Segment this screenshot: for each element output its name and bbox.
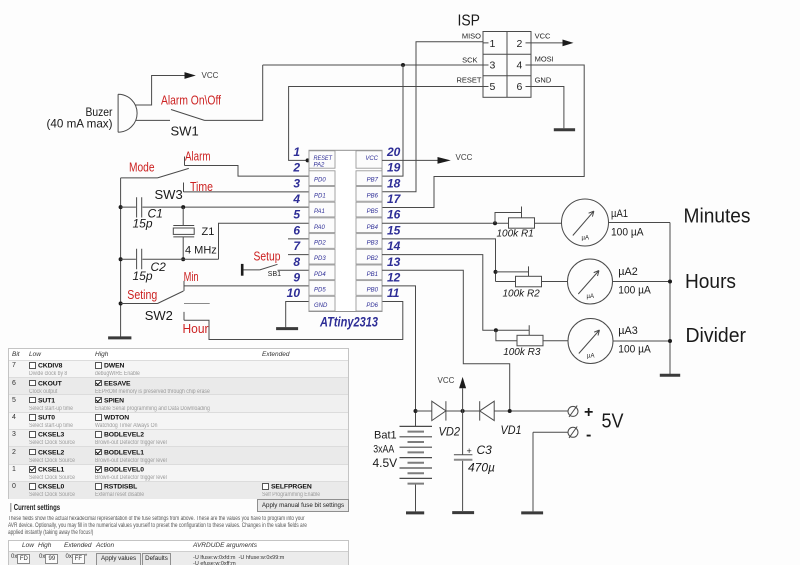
pin number 9 <box>293 270 300 284</box>
wire R3 to meter uA3 <box>543 340 568 342</box>
pin number 12 <box>387 270 401 284</box>
svg-text:2: 2 <box>292 161 300 175</box>
junction rail/C1 <box>119 205 123 209</box>
svg-text:Alarm On\Off: Alarm On\Off <box>161 94 221 108</box>
svg-text:4.5V: 4.5V <box>373 456 398 470</box>
diode VD1 <box>480 401 522 437</box>
svg-text:PA2: PA2 <box>314 163 326 169</box>
svg-text:VCC: VCC <box>202 71 219 80</box>
svg-text:PB3: PB3 <box>367 241 379 247</box>
svg-text:Z1: Z1 <box>202 226 215 238</box>
junction rail/uA3 <box>668 339 672 343</box>
svg-text:+: + <box>584 404 593 421</box>
svg-text:Mode: Mode <box>129 161 155 175</box>
fuse bits table <box>8 348 349 499</box>
svg-text:3xAA: 3xAA <box>373 444 395 456</box>
svg-text:-: - <box>586 426 591 443</box>
svg-text:4 MHz: 4 MHz <box>185 245 217 257</box>
pin number 17 <box>387 192 402 206</box>
svg-text:+: + <box>467 446 472 456</box>
capacitor C2 15p <box>121 249 219 283</box>
svg-text:RESET: RESET <box>314 156 334 162</box>
svg-text:GND: GND <box>314 303 328 309</box>
pin number 10 <box>287 286 301 300</box>
label Mode <box>129 161 155 175</box>
svg-text:18: 18 <box>387 176 401 190</box>
svg-text:100k R3: 100k R3 <box>503 347 541 358</box>
svg-text:PD0: PD0 <box>314 178 326 184</box>
battery Bat1 3xAA 4.5V <box>373 411 433 511</box>
pin number 14 <box>387 239 401 253</box>
svg-text:PD5: PD5 <box>314 288 326 294</box>
wire chip pin20 to VCC arrow <box>382 159 438 161</box>
pin number 20 <box>386 145 401 159</box>
svg-text:5: 5 <box>490 81 496 93</box>
svg-text:PA0: PA0 <box>314 225 326 231</box>
switch SW3 <box>121 168 189 202</box>
wire Hour contact to chip pin11 PD6 <box>184 302 403 340</box>
svg-text:Alarm: Alarm <box>185 149 211 163</box>
terminal + 5V <box>568 404 593 421</box>
wire SCK net horizontal to ISP pin3 <box>263 64 483 66</box>
svg-text:4: 4 <box>517 60 523 72</box>
wire chip pin14 PB2 to R3 <box>382 255 529 336</box>
wire chip pin12 PB0 to battery node <box>382 286 416 411</box>
resistor R3 100k (trimmer) <box>496 330 543 358</box>
svg-text:4: 4 <box>292 192 300 206</box>
junction R3 wiper node <box>494 328 498 332</box>
svg-text:16: 16 <box>387 208 401 222</box>
wire Time contact to chip pin3 PD1 <box>184 183 310 193</box>
current settings value table <box>8 540 349 565</box>
label ATtiny2313 <box>319 314 378 330</box>
svg-text:PB2: PB2 <box>367 256 379 262</box>
svg-text:VCC: VCC <box>535 32 551 41</box>
resistor R1 100k (trimmer) <box>495 207 535 240</box>
diode VD2 <box>432 401 461 438</box>
svg-text:Setup: Setup <box>254 250 281 264</box>
svg-text:Bat1: Bat1 <box>374 429 397 441</box>
svg-text:13: 13 <box>387 255 401 269</box>
svg-text:9: 9 <box>293 270 300 284</box>
wire ISP pin6 to ground <box>531 87 564 129</box>
svg-text:PD2: PD2 <box>314 241 326 247</box>
svg-text:PB1: PB1 <box>367 272 378 278</box>
terminal - 5V <box>533 426 591 443</box>
pin number 3 <box>293 176 300 190</box>
wire chip pin15 PB3 to R2 <box>382 239 496 282</box>
svg-text:5: 5 <box>293 208 300 222</box>
svg-text:Hour: Hour <box>183 322 209 336</box>
junction R1 wiper node <box>493 221 497 225</box>
svg-text:MOSI: MOSI <box>535 55 554 64</box>
capacitor C1 15p <box>121 197 309 230</box>
wire chip pin10 GND to ground <box>286 302 309 328</box>
wire uA1 to right rail <box>609 222 671 224</box>
ground (minus rail) <box>521 511 543 514</box>
svg-text:SCK: SCK <box>462 55 477 64</box>
svg-text:100 µA: 100 µA <box>618 344 651 356</box>
svg-text:GND: GND <box>535 76 552 85</box>
pin number 7 <box>293 239 301 253</box>
label Min <box>184 270 199 284</box>
pin number 4 <box>292 192 300 206</box>
svg-text:15p: 15p <box>133 216 153 230</box>
pin number 18 <box>387 176 401 190</box>
pin number 19 <box>387 161 401 175</box>
wire left ground rail <box>120 178 122 337</box>
wire buzzer bottom to SW1 <box>136 119 170 121</box>
svg-text:11: 11 <box>387 286 400 300</box>
label Minutes <box>684 206 751 228</box>
junction SCK tap <box>401 63 405 67</box>
pin number 5 <box>293 208 300 222</box>
junction battery/power line <box>414 409 418 413</box>
junction +5V sense node <box>508 409 512 413</box>
svg-text:(40 mA max): (40 mA max) <box>47 117 113 131</box>
pin number 8 <box>293 255 300 269</box>
svg-text:ISP: ISP <box>458 13 481 30</box>
meter uA1 <box>562 199 645 246</box>
svg-text:PD6: PD6 <box>366 303 378 309</box>
pin number 16 <box>387 208 401 222</box>
junction R2 wiper node <box>494 270 498 274</box>
connector ISP <box>456 13 553 98</box>
svg-text:µA: µA <box>582 235 589 241</box>
wire stub pin7 PD3 <box>288 254 309 256</box>
svg-text:Hours: Hours <box>685 271 736 293</box>
wire VD1 to + terminal <box>494 410 568 412</box>
pin number 1 <box>293 145 300 159</box>
pin number 6 <box>293 223 300 237</box>
pin number 11 <box>387 286 400 300</box>
junction rail/C2 <box>119 257 123 261</box>
ground (left rail) <box>108 336 131 339</box>
svg-text:µA1: µA1 <box>611 208 628 220</box>
svg-text:Divider: Divider <box>686 325 747 347</box>
svg-text:PA1: PA1 <box>314 209 325 215</box>
svg-text:100k R2: 100k R2 <box>503 289 541 300</box>
junction rail/uA2 <box>668 280 672 284</box>
wire VD2 to VD1 <box>446 410 480 412</box>
wire stub pin6 PD2 <box>288 238 309 240</box>
svg-text:15: 15 <box>387 223 401 237</box>
wire RESET net: ISP pin5 to chip pin1 <box>289 87 483 161</box>
power VCC symbol (buzzer) <box>185 71 219 80</box>
power VCC symbol (pin20) <box>438 153 473 164</box>
svg-text:10: 10 <box>287 286 301 300</box>
wire C2/crystal to chip pin5 PA0 <box>219 223 310 259</box>
svg-text:C3: C3 <box>477 443 493 457</box>
wire SB1 to chip pin8 PD4 <box>278 269 310 271</box>
svg-text:VD2: VD2 <box>439 424 461 438</box>
label 5V <box>602 411 625 433</box>
svg-text:2: 2 <box>517 38 523 50</box>
svg-text:6: 6 <box>293 223 300 237</box>
wire MISO net: ISP pin1 to chip pin18 PB6 <box>382 42 483 192</box>
svg-text:SW3: SW3 <box>155 187 183 202</box>
svg-text:C2: C2 <box>151 260 167 274</box>
svg-text:470µ: 470µ <box>468 460 495 474</box>
wire right rail <box>669 223 671 375</box>
ground (C3) <box>452 511 474 514</box>
pin number 13 <box>387 255 401 269</box>
svg-text:VD1: VD1 <box>501 423 522 437</box>
svg-text:µA: µA <box>587 294 594 300</box>
svg-text:5V: 5V <box>602 411 625 433</box>
svg-text:100k R1: 100k R1 <box>497 229 534 240</box>
svg-text:12: 12 <box>387 270 401 284</box>
wire - terminal to ground <box>532 432 534 511</box>
svg-text:3: 3 <box>293 176 300 190</box>
buzzer BZ (Buzer 40 mA max) <box>47 94 138 132</box>
svg-text:Minutes: Minutes <box>684 206 751 228</box>
svg-text:SW2: SW2 <box>145 308 173 323</box>
wire SW1 to SCK net riser <box>205 65 263 120</box>
svg-text:PD1: PD1 <box>314 193 326 199</box>
wire buzzer top to VCC arrow <box>136 76 185 106</box>
svg-text:7: 7 <box>293 239 301 253</box>
svg-text:VCC: VCC <box>438 376 455 385</box>
svg-text:1: 1 <box>490 38 496 50</box>
svg-text:14: 14 <box>387 239 401 253</box>
svg-text:µA3: µA3 <box>618 325 638 337</box>
pin number 2 <box>292 161 300 175</box>
label Hours <box>685 271 736 293</box>
label Time <box>190 180 213 194</box>
svg-text:SB1: SB1 <box>268 271 281 278</box>
wire ISP pin2 to VCC arrow <box>531 42 563 44</box>
crystal Z1 4 MHz <box>173 207 216 259</box>
wire R1 to meter uA1 <box>535 222 562 224</box>
button apply manual fuse bit settings <box>257 499 349 512</box>
label Divider <box>686 325 747 347</box>
svg-text:Min: Min <box>184 270 199 284</box>
pushbutton SB1 <box>242 264 281 278</box>
svg-text:PB6: PB6 <box>367 193 379 199</box>
ground (battery) <box>406 511 424 514</box>
power VCC symbol (supply node) <box>438 376 467 411</box>
wire MOSI net: ISP pin4 to chip pin17 PB5 <box>382 65 584 208</box>
wire chip pin16 PB4 to R1 <box>382 222 509 224</box>
power VCC symbol (ISP) <box>563 40 574 47</box>
label Setup <box>254 250 281 264</box>
wire R2 to meter uA2 <box>542 281 568 283</box>
svg-text:17: 17 <box>387 192 402 206</box>
wire battery to VD2 <box>416 410 432 412</box>
svg-text:MISO: MISO <box>462 32 481 41</box>
svg-text:3: 3 <box>490 60 496 72</box>
svg-text:SW1: SW1 <box>171 123 199 138</box>
meter uA2 <box>568 259 652 304</box>
svg-text:PB0: PB0 <box>367 288 379 294</box>
meter uA3 <box>568 319 651 364</box>
svg-text:µA2: µA2 <box>618 266 638 278</box>
wire uA2 to right rail <box>613 281 671 283</box>
wire Min contact to chip pin9 PD5 <box>184 281 309 291</box>
switch SW1 <box>171 110 205 139</box>
switch SW2 <box>121 291 210 323</box>
label Alarm <box>185 149 211 163</box>
capacitor C3 470u <box>454 411 495 511</box>
junction C1/crystal <box>181 205 185 209</box>
svg-text:8: 8 <box>293 255 300 269</box>
ground (chip GND) <box>276 327 298 330</box>
svg-text:19: 19 <box>387 161 401 175</box>
svg-text:ATtiny2313: ATtiny2313 <box>319 314 378 330</box>
pin number 15 <box>387 223 401 237</box>
svg-text:Seting: Seting <box>127 288 157 302</box>
svg-text:20: 20 <box>386 145 401 159</box>
heading current settings <box>10 503 60 512</box>
ground (right rail) <box>660 374 680 377</box>
svg-text:6: 6 <box>517 81 523 93</box>
IC U1 ATtiny2313 <box>309 150 382 311</box>
label Hour <box>183 322 209 336</box>
junction crystal/C2 <box>181 257 185 261</box>
junction rail/SW2 <box>119 302 123 306</box>
svg-text:PD3: PD3 <box>314 256 326 262</box>
label Seting <box>127 288 157 302</box>
junction VCC node <box>461 409 465 413</box>
svg-text:VCC: VCC <box>456 153 473 162</box>
svg-text:µA: µA <box>587 354 594 360</box>
svg-text:1: 1 <box>293 145 300 159</box>
wire uA3 to right rail <box>613 340 670 342</box>
wire Alarm contact to chip pin2 PD0 <box>185 157 310 177</box>
svg-text:PD4: PD4 <box>314 272 326 278</box>
paragraph fuse description <box>8 516 348 538</box>
junction chip pin1 RESET <box>306 158 310 162</box>
svg-text:100 µA: 100 µA <box>618 284 651 296</box>
resistor R2 100k (trimmer) <box>496 266 542 299</box>
ground (ISP) <box>554 128 575 131</box>
svg-text:PB4: PB4 <box>367 225 379 231</box>
svg-text:PB7: PB7 <box>367 178 379 184</box>
svg-text:15p: 15p <box>133 269 153 283</box>
svg-text:100 µA: 100 µA <box>611 227 644 239</box>
label Alarm On\Off <box>161 94 221 108</box>
svg-text:PB5: PB5 <box>367 209 379 215</box>
wire chip pin13 PB1 to +5V input node <box>382 270 510 411</box>
svg-text:RESET: RESET <box>456 76 481 85</box>
svg-text:VCC: VCC <box>365 156 378 162</box>
wire SCK tap to chip pin19 PB7 <box>382 65 403 176</box>
